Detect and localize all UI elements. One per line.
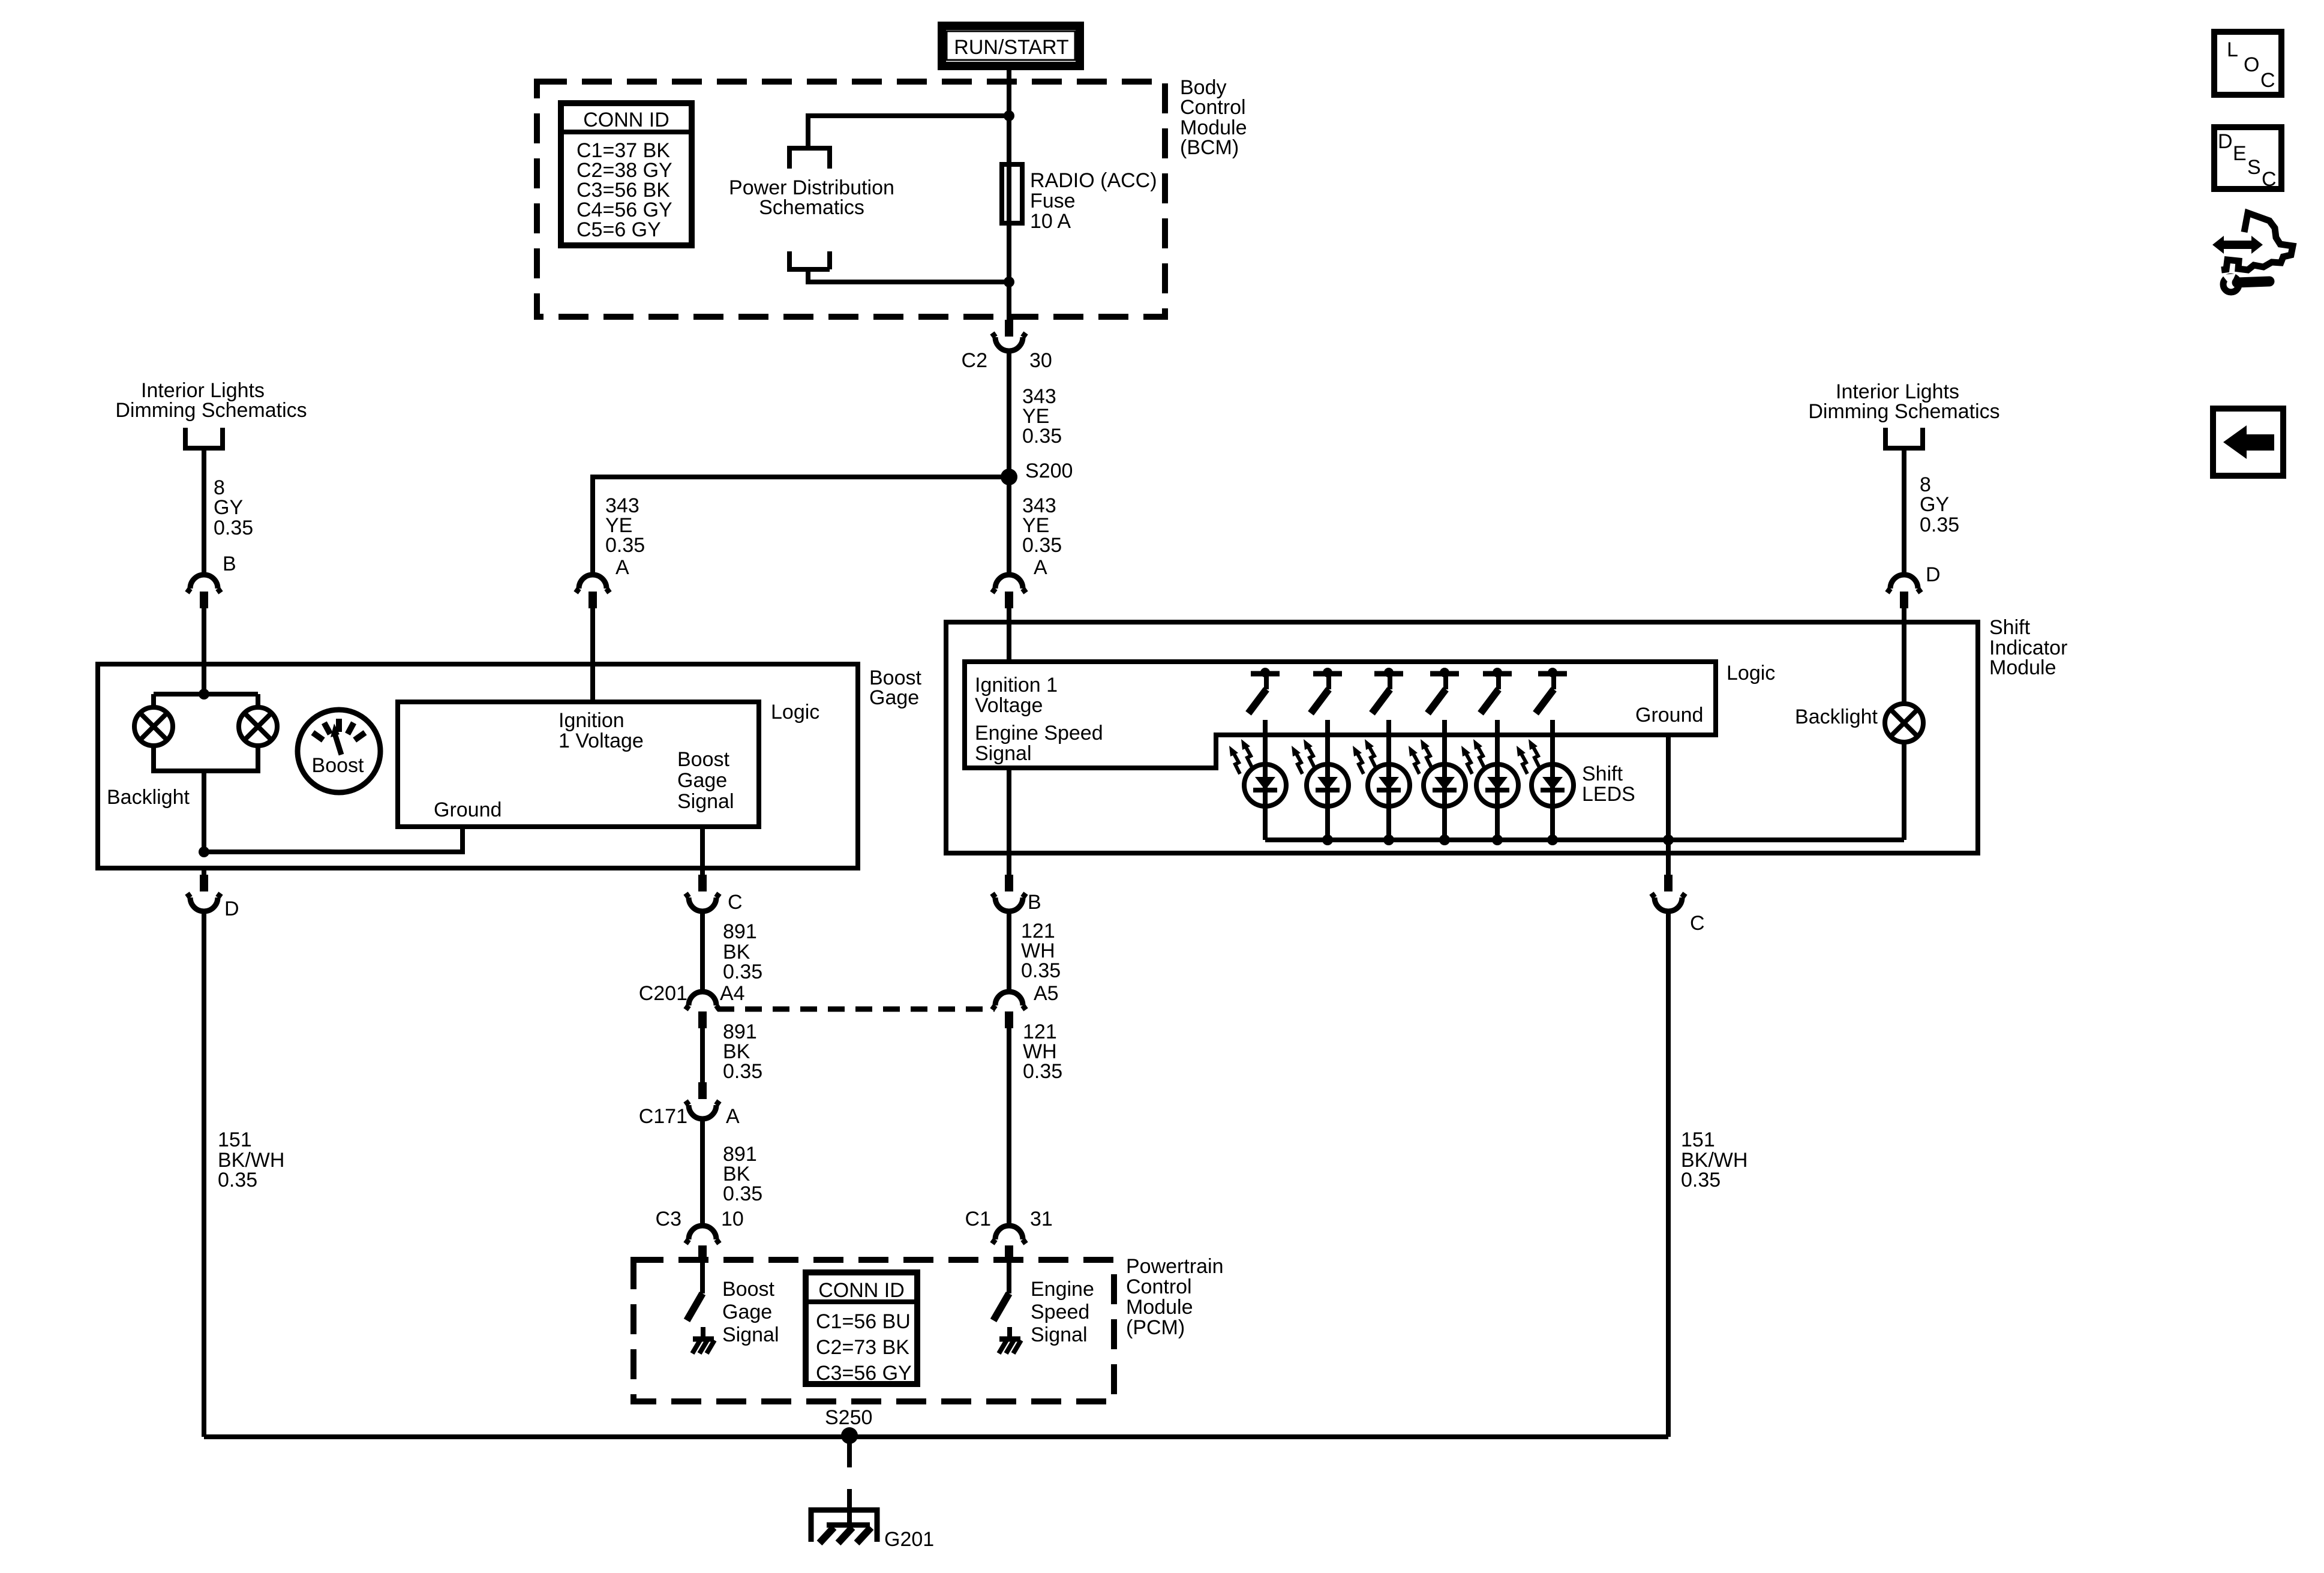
- svg-text:10 A: 10 A: [1030, 210, 1071, 233]
- svg-text:RUN/START: RUN/START: [954, 36, 1068, 59]
- label RADIO (ACC) Fuse 10 A: [1030, 169, 1157, 233]
- wire 343 YE from C2 to S200: [1007, 351, 1011, 477]
- label Interior Lights Dimming Schematics (right): [1808, 380, 1999, 423]
- junction bus dots: [1322, 834, 1674, 845]
- wire 891 BK C171 to C3: [700, 1119, 705, 1227]
- svg-text:Speed: Speed: [1031, 1301, 1089, 1323]
- svg-text:Dimming Schematics: Dimming Schematics: [115, 399, 307, 422]
- lamp backlight (shift): [1885, 704, 1923, 742]
- svg-text:Backlight: Backlight: [107, 786, 190, 809]
- svg-text:Ground: Ground: [1635, 704, 1703, 727]
- label 891 BK 0.35: [723, 920, 762, 983]
- table CONN ID (BCM): [561, 103, 692, 245]
- svg-text:C1=56 BU: C1=56 BU: [816, 1310, 911, 1333]
- connector C171 pin A: [686, 1082, 719, 1119]
- svg-text:Shift: Shift: [1582, 763, 1623, 785]
- wire branch to power distribution: [808, 116, 1009, 148]
- svg-text:C: C: [1690, 912, 1705, 935]
- table CONN ID (PCM): [806, 1272, 917, 1385]
- svg-text:GY: GY: [214, 496, 243, 519]
- logic box (shift): [965, 662, 1716, 768]
- wire S200 down to A (shift module): [1007, 477, 1011, 575]
- label Engine Speed Signal (shift): [975, 722, 1103, 765]
- svg-text:A4: A4: [720, 982, 745, 1005]
- svg-text:B: B: [223, 553, 236, 575]
- connector A (shift module): [992, 575, 1026, 608]
- junction ground rail: [199, 846, 209, 857]
- svg-text:Module: Module: [1989, 656, 2056, 679]
- splice S250: [841, 1427, 858, 1444]
- svg-text:D: D: [2218, 130, 2233, 153]
- svg-text:C171: C171: [639, 1105, 687, 1128]
- svg-text:0.35: 0.35: [605, 534, 645, 557]
- wire ground from logic to bus: [1666, 735, 1671, 840]
- svg-text:C3=56 GY: C3=56 GY: [816, 1362, 912, 1385]
- svg-text:Gage: Gage: [869, 686, 919, 709]
- connector C (boost gage signal): [686, 875, 719, 911]
- svg-text:C201: C201: [639, 982, 687, 1005]
- switch boost gage signal (PCM) with ground: [687, 1262, 714, 1353]
- svg-text:C: C: [2260, 69, 2275, 92]
- off-page bracket (left dimming): [185, 428, 223, 448]
- connector A5 (C201): [992, 992, 1026, 1028]
- wire engine speed signal out: [1007, 768, 1011, 875]
- switch logic 4: [1428, 668, 1459, 713]
- label Ignition 1 Voltage: [559, 709, 644, 752]
- module Shift Indicator outline: [946, 622, 1978, 853]
- wire lamp rail bottom: [154, 746, 258, 771]
- wire backlight to bus: [1902, 742, 1906, 840]
- junction dot top branch: [1004, 110, 1014, 121]
- svg-text:0.35: 0.35: [723, 1060, 762, 1083]
- label 151 BK/WH 0.35 (left): [218, 1128, 284, 1191]
- lamp backlight right: [239, 707, 277, 746]
- wire LED column 6: [1550, 720, 1555, 840]
- wire dashed C201 to A5: [717, 1007, 995, 1012]
- LED 5: [1461, 739, 1518, 806]
- svg-text:Powertrain: Powertrain: [1126, 1255, 1224, 1278]
- svg-text:Signal: Signal: [677, 790, 734, 813]
- logic box (boost gage): [398, 702, 759, 827]
- svg-text:S200: S200: [1025, 460, 1073, 482]
- svg-text:Shift: Shift: [1989, 616, 2031, 639]
- icon LOC box: [2214, 32, 2281, 95]
- label Boost Gage Signal: [722, 1278, 779, 1346]
- label 8 GY 0.35: [214, 476, 253, 539]
- wire lamps to ground rail: [202, 771, 206, 852]
- svg-text:0.35: 0.35: [218, 1169, 257, 1191]
- wire 8 GY to B: [202, 448, 206, 575]
- svg-text:1 Voltage: 1 Voltage: [559, 730, 644, 752]
- junction backlight split: [199, 689, 209, 700]
- wire 891 BK to C201: [700, 911, 705, 993]
- wire ground rail to logic: [204, 827, 463, 852]
- svg-text:Boost: Boost: [312, 754, 364, 777]
- svg-text:(BCM): (BCM): [1180, 136, 1239, 159]
- svg-text:0.35: 0.35: [1022, 425, 1062, 448]
- LED 1: [1229, 739, 1286, 806]
- svg-text:Gage: Gage: [677, 769, 727, 792]
- wire A to boost gage logic: [590, 608, 595, 702]
- svg-text:C5=6 GY: C5=6 GY: [577, 218, 661, 241]
- svg-text:Control: Control: [1126, 1275, 1192, 1298]
- svg-text:Voltage: Voltage: [975, 694, 1043, 717]
- switch logic 1: [1248, 668, 1280, 713]
- switch logic 6: [1536, 668, 1567, 713]
- label Interior Lights Dimming Schematics (left): [115, 379, 307, 422]
- wire ground run S250: [204, 1434, 1668, 1439]
- svg-text:Control: Control: [1180, 96, 1246, 119]
- icon diagnosis (arrow, part outline, wrench): [2212, 213, 2293, 292]
- gauge Boost: [298, 710, 380, 792]
- svg-text:A: A: [1034, 556, 1047, 579]
- LED 3: [1353, 739, 1410, 806]
- label Body Control Module (BCM): [1180, 76, 1247, 159]
- fuse RADIO (ACC) 10 A: [1002, 164, 1022, 223]
- switch logic 3: [1372, 668, 1403, 713]
- svg-text:E: E: [2233, 142, 2247, 165]
- svg-text:Ignition: Ignition: [559, 709, 624, 732]
- svg-text:Logic: Logic: [771, 701, 819, 724]
- wire 121 WH A5 to C1: [1007, 1028, 1011, 1227]
- off-page bracket (right dimming): [1885, 428, 1923, 448]
- svg-text:Schematics: Schematics: [759, 196, 864, 219]
- wire LED column 5: [1495, 720, 1500, 840]
- svg-text:D: D: [1926, 563, 1941, 586]
- svg-text:Ignition 1: Ignition 1: [975, 674, 1058, 697]
- svg-text:CONN ID: CONN ID: [583, 109, 669, 131]
- wire ground out of module: [1666, 840, 1671, 875]
- wire backlight return out: [202, 868, 206, 875]
- connector C3 pin 10: [686, 1226, 719, 1262]
- wire LED column 3: [1386, 720, 1391, 840]
- icon back-arrow box: [2213, 409, 2283, 476]
- label 121 WH 0.35: [1021, 920, 1061, 982]
- off-page bracket lower (power distribution): [789, 251, 830, 269]
- connector C2 pin 30 at BCM: [992, 320, 1026, 351]
- svg-text:0.35: 0.35: [723, 960, 762, 983]
- label Power Distribution Schematics: [729, 176, 894, 219]
- svg-text:31: 31: [1030, 1208, 1053, 1230]
- off-page bracket upper (power distribution): [789, 148, 830, 169]
- label Shift LEDS: [1582, 763, 1635, 806]
- svg-text:A: A: [615, 556, 629, 579]
- svg-text:G201: G201: [884, 1528, 934, 1551]
- svg-text:A5: A5: [1034, 982, 1059, 1005]
- svg-text:LEDS: LEDS: [1582, 783, 1635, 806]
- svg-text:Boost: Boost: [722, 1278, 774, 1301]
- wire boost gage signal out: [700, 827, 705, 875]
- svg-text:Gage: Gage: [722, 1301, 772, 1323]
- svg-text:0.35: 0.35: [723, 1182, 762, 1205]
- wire LED column 1: [1263, 720, 1268, 840]
- connector D (shift backlight): [1887, 575, 1921, 608]
- lamp backlight left: [134, 707, 173, 746]
- svg-text:S250: S250: [825, 1406, 872, 1429]
- svg-text:Signal: Signal: [975, 742, 1032, 765]
- svg-text:CONN ID: CONN ID: [818, 1279, 905, 1302]
- wire B into boost gage box: [202, 608, 206, 694]
- label 343 YE 0.35 A (main): [1022, 494, 1062, 579]
- svg-text:Engine: Engine: [1031, 1278, 1094, 1301]
- icon DESC box: [2214, 127, 2281, 191]
- svg-text:0.35: 0.35: [1021, 959, 1061, 982]
- svg-text:Fuse: Fuse: [1030, 190, 1076, 212]
- label 343 YE 0.35 A (left branch): [605, 494, 645, 579]
- module PCM dashed outline: [633, 1260, 1114, 1401]
- label Shift Indicator Module: [1989, 616, 2067, 679]
- svg-text:0.35: 0.35: [1023, 1060, 1062, 1083]
- svg-text:S: S: [2247, 156, 2261, 179]
- svg-text:D: D: [224, 897, 239, 920]
- label 151 BK/WH 0.35 (right): [1681, 1128, 1747, 1191]
- wire 891 BK C201 to C171: [700, 1028, 705, 1082]
- label Boost Gage Signal (logic): [677, 748, 734, 813]
- svg-text:0.35: 0.35: [1022, 534, 1062, 557]
- svg-text:C2=73 BK: C2=73 BK: [816, 1336, 909, 1359]
- svg-text:Signal: Signal: [1031, 1323, 1088, 1346]
- module Boost Gage outline: [98, 664, 858, 868]
- svg-text:0.35: 0.35: [1920, 514, 1959, 536]
- junction dot bottom branch: [1004, 277, 1014, 287]
- svg-text:151: 151: [218, 1128, 252, 1151]
- svg-text:Boost: Boost: [677, 748, 729, 771]
- label Powertrain Control Module (PCM): [1126, 1255, 1224, 1339]
- connector B (boost gage backlight): [187, 575, 221, 608]
- label Boost Gage: [869, 667, 921, 709]
- label 121 WH 0.35: [1023, 1020, 1062, 1083]
- svg-text:B: B: [1028, 891, 1041, 914]
- wire S250 to G201: [847, 1437, 852, 1525]
- wire lamp rail top: [154, 694, 258, 707]
- svg-text:Engine Speed: Engine Speed: [975, 722, 1103, 745]
- svg-text:10: 10: [721, 1208, 744, 1230]
- label 343 YE 0.35: [1022, 385, 1062, 448]
- connector C (shift ground): [1652, 875, 1685, 911]
- svg-text:C: C: [2262, 168, 2277, 191]
- node RUN/START (ignition feed): [942, 26, 1080, 66]
- connector A (boost gage): [576, 575, 609, 608]
- wire 8 GY to D: [1902, 448, 1906, 575]
- wire 121 WH to A5: [1007, 911, 1011, 993]
- wire A to shift logic: [1007, 608, 1011, 662]
- svg-text:O: O: [2244, 53, 2259, 76]
- LED 2: [1292, 739, 1349, 806]
- svg-text:C: C: [728, 891, 743, 914]
- svg-text:C2: C2: [962, 349, 987, 372]
- connector C1 pin 31: [992, 1226, 1026, 1262]
- svg-text:L: L: [2227, 38, 2238, 61]
- connector D (backlight return): [187, 875, 221, 911]
- svg-text:RADIO (ACC): RADIO (ACC): [1030, 169, 1157, 192]
- switch engine speed signal (PCM) with ground: [993, 1262, 1021, 1353]
- connector C201 pin A4: [686, 992, 719, 1028]
- svg-text:(PCM): (PCM): [1126, 1316, 1185, 1339]
- splice S200: [1001, 469, 1017, 485]
- LED 6: [1517, 739, 1574, 806]
- wire LED column 4: [1442, 720, 1447, 840]
- svg-text:GY: GY: [1920, 493, 1949, 516]
- ground G201: [811, 1510, 877, 1543]
- label Engine Speed Signal: [1031, 1278, 1094, 1346]
- switch logic 5: [1481, 668, 1512, 713]
- svg-text:C3: C3: [656, 1208, 681, 1230]
- label 8 GY 0.35: [1920, 473, 1959, 536]
- wire from bracket back to main: [808, 269, 1009, 282]
- LED 4: [1409, 739, 1466, 806]
- switch logic 2: [1311, 668, 1342, 713]
- wire LED column 2: [1325, 720, 1330, 840]
- wire 151 BK/WH right: [1666, 911, 1671, 1437]
- wire S200 branch left: [593, 477, 1009, 575]
- svg-text:151: 151: [1681, 1128, 1715, 1151]
- label Ignition 1 Voltage (shift): [975, 674, 1058, 717]
- label 891 BK 0.35: [723, 1143, 762, 1205]
- svg-text:Module: Module: [1126, 1296, 1193, 1319]
- svg-text:0.35: 0.35: [1681, 1169, 1721, 1191]
- module BCM dashed outline: [537, 82, 1165, 317]
- svg-text:C1: C1: [965, 1208, 991, 1230]
- label 891 BK 0.35: [723, 1020, 762, 1083]
- connector B (engine speed signal): [992, 875, 1026, 911]
- svg-text:Ground: Ground: [434, 798, 502, 821]
- svg-text:891: 891: [723, 920, 757, 943]
- wire D into shift module: [1902, 608, 1906, 703]
- wire RUN/START down to fuse and C2: [1007, 70, 1011, 320]
- svg-text:30: 30: [1029, 349, 1052, 372]
- svg-text:Backlight: Backlight: [1795, 706, 1878, 728]
- svg-text:0.35: 0.35: [214, 517, 253, 539]
- svg-text:Signal: Signal: [722, 1323, 779, 1346]
- svg-text:Logic: Logic: [1727, 662, 1775, 685]
- wire 151 BK/WH left: [202, 911, 206, 1437]
- svg-text:A: A: [726, 1105, 740, 1128]
- svg-text:Dimming Schematics: Dimming Schematics: [1808, 400, 1999, 423]
- wire LED bus: [1265, 837, 1904, 842]
